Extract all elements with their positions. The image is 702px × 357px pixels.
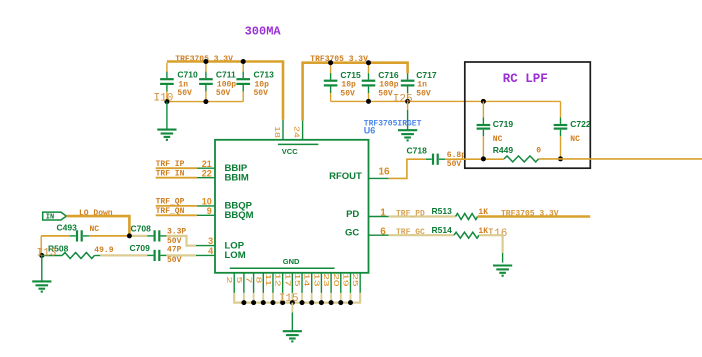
wire bus to ground xyxy=(291,303,293,313)
svg-text:50V: 50V xyxy=(447,160,462,169)
junction dots R449 row xyxy=(481,156,486,161)
ground bus under U6 xyxy=(234,293,360,303)
pin 1 stub (PD) xyxy=(369,216,389,218)
svg-text:GC: GC xyxy=(345,228,359,239)
svg-text:300MA: 300MA xyxy=(245,25,282,39)
capacitor C719 leads xyxy=(482,101,484,117)
pin 3 stub (LOP) xyxy=(196,245,215,247)
capacitor C713 leads xyxy=(242,62,244,73)
svg-text:C711: C711 xyxy=(216,70,236,80)
capacitor C711 leads xyxy=(205,62,207,73)
wire TRF_GC to R514 (highlighted) xyxy=(389,234,454,236)
capacitor C709 xyxy=(147,254,153,256)
svg-text:1n: 1n xyxy=(178,80,188,89)
svg-text:NC: NC xyxy=(493,135,503,144)
capacitor C716 leads xyxy=(368,63,370,73)
wire power rail right (3.3V) down to pin 24 xyxy=(303,63,408,121)
svg-text:C713: C713 xyxy=(254,70,275,80)
GND pins of U6 (2,5,7,8,11,12,17,15,14,13,23,20,19,25) xyxy=(233,273,235,293)
svg-text:10p: 10p xyxy=(255,80,270,89)
ground (right cap group) xyxy=(407,101,409,110)
svg-text:13: 13 xyxy=(312,273,320,287)
capacitor C493 xyxy=(70,235,76,237)
svg-text:50V: 50V xyxy=(216,89,231,98)
svg-text:14: 14 xyxy=(303,273,311,287)
svg-text:50V: 50V xyxy=(416,89,431,98)
svg-text:1: 1 xyxy=(380,208,386,219)
resistor R449 xyxy=(504,156,538,162)
capacitor C708 xyxy=(147,235,153,237)
wire C709 to pin 4 (highlighted) xyxy=(166,254,196,256)
svg-text:50V: 50V xyxy=(254,89,269,98)
capacitor C717 xyxy=(407,73,409,79)
svg-text:R449: R449 xyxy=(493,145,514,155)
wire C493 row left segment xyxy=(41,235,69,237)
svg-text:23: 23 xyxy=(322,273,330,287)
capacitor C722 leads xyxy=(560,101,562,117)
wire net TRF IN to pin 22 xyxy=(156,177,197,179)
resistor R508 xyxy=(62,253,94,259)
capacitor C711 xyxy=(205,72,207,78)
svg-text:3: 3 xyxy=(208,236,213,246)
VCC bar xyxy=(278,143,318,145)
wire TRF_PD to R513 (highlighted) xyxy=(389,215,456,217)
svg-text:GND: GND xyxy=(283,257,300,266)
svg-text:20: 20 xyxy=(332,273,340,287)
capacitor C710 leads xyxy=(166,63,168,72)
svg-text:50V: 50V xyxy=(378,89,393,98)
wire power rail left (3.3V) down to pin 18 xyxy=(167,62,283,120)
ground (left cap group) xyxy=(166,102,168,130)
svg-text:C710: C710 xyxy=(177,70,198,80)
svg-text:11: 11 xyxy=(264,274,272,287)
junction dot R508 node xyxy=(39,253,44,258)
resistor R513 xyxy=(456,214,478,220)
svg-text:18: 18 xyxy=(273,126,281,138)
svg-text:TRF_PD: TRF_PD xyxy=(396,210,425,219)
wire to ground (R514) xyxy=(502,253,504,263)
svg-text:100p: 100p xyxy=(379,81,398,90)
capacitor C718 xyxy=(426,158,432,160)
wire down to R508 node xyxy=(40,236,42,256)
GND bar xyxy=(230,267,335,269)
wire C718 to R449 row xyxy=(445,158,504,160)
ground (R514) xyxy=(493,266,512,276)
svg-text:C716: C716 xyxy=(378,70,399,80)
svg-text:49.9: 49.9 xyxy=(94,246,113,255)
pin 18 stub (VCC) xyxy=(282,120,284,140)
svg-text:C493: C493 xyxy=(57,223,78,233)
pin 9 stub (BBQM) xyxy=(197,214,215,216)
svg-text:19: 19 xyxy=(341,273,349,287)
svg-text:15: 15 xyxy=(293,273,301,287)
ground (R508) xyxy=(41,256,43,282)
svg-text:25: 25 xyxy=(351,273,359,287)
junction dots left bottom rail xyxy=(164,99,169,104)
svg-text:6: 6 xyxy=(380,226,386,237)
svg-text:17: 17 xyxy=(283,273,291,286)
pin 6 stub (GC) xyxy=(369,234,389,236)
svg-text:100p: 100p xyxy=(217,80,236,89)
svg-text:50V: 50V xyxy=(340,89,355,98)
svg-text:50V: 50V xyxy=(177,89,192,98)
wire junction to C708 (highlighted) xyxy=(129,235,147,237)
wire R513 to 3.3V rail xyxy=(478,215,591,218)
pin 16 stub (RFOUT) xyxy=(369,177,389,179)
capacitor C719 xyxy=(482,118,484,124)
svg-text:I25: I25 xyxy=(393,94,413,106)
resistor R514 xyxy=(454,232,479,238)
port IN xyxy=(43,212,67,220)
svg-text:10p: 10p xyxy=(341,81,356,90)
svg-text:RFOUT: RFOUT xyxy=(329,171,362,182)
wire RFOUT to C718 xyxy=(389,159,426,178)
capacitor C713 xyxy=(242,72,244,78)
svg-text:C719: C719 xyxy=(493,119,514,129)
junction dots right bottom wire xyxy=(366,99,371,104)
svg-text:C717: C717 xyxy=(416,70,437,80)
IC U6 TRF3705 body xyxy=(215,140,369,273)
RC LPF block outline xyxy=(465,62,591,168)
svg-text:TRF IN: TRF IN xyxy=(156,169,185,178)
junction dots right rail xyxy=(328,60,333,65)
svg-text:8: 8 xyxy=(254,277,262,284)
svg-text:R514: R514 xyxy=(432,225,453,235)
junction dot LO node xyxy=(127,233,132,238)
capacitor C710 xyxy=(166,72,168,78)
svg-text:47P: 47P xyxy=(167,245,182,254)
svg-text:IN: IN xyxy=(46,214,54,222)
svg-text:I13: I13 xyxy=(37,248,57,260)
svg-text:TRF_GC: TRF_GC xyxy=(396,228,425,237)
svg-text:I10: I10 xyxy=(154,92,174,104)
pin stubs to ground bus xyxy=(243,293,245,303)
svg-text:TRF IP: TRF IP xyxy=(156,160,185,169)
junction dots on ground bus xyxy=(241,300,246,305)
svg-text:TRF_QN: TRF_QN xyxy=(156,207,185,216)
svg-text:12: 12 xyxy=(273,273,281,286)
svg-text:VCC: VCC xyxy=(282,147,298,156)
svg-text:R513: R513 xyxy=(432,206,453,216)
svg-text:NC: NC xyxy=(570,135,580,144)
svg-text:C708: C708 xyxy=(131,224,152,234)
svg-text:16: 16 xyxy=(379,167,391,178)
wire R514 to ground (highlighted) xyxy=(479,235,503,253)
svg-text:C715: C715 xyxy=(340,70,361,80)
svg-text:24: 24 xyxy=(293,126,301,138)
svg-text:TRF3705 3.3V: TRF3705 3.3V xyxy=(501,210,559,219)
wire net TRF_QP to pin 10 xyxy=(156,205,197,207)
wire net TRF_QN to pin 9 xyxy=(156,214,197,216)
svg-text:4: 4 xyxy=(208,246,213,256)
svg-text:5: 5 xyxy=(235,277,243,284)
pin 10 stub (BBQP) xyxy=(197,205,215,207)
svg-text:LOM: LOM xyxy=(225,250,246,261)
capacitor C716 xyxy=(368,73,370,79)
wire bottom rail of right cap group into RC LPF box xyxy=(331,100,561,102)
junction dots left rail xyxy=(203,59,208,64)
svg-text:9: 9 xyxy=(207,206,212,216)
capacitor C722 xyxy=(560,118,562,124)
svg-text:NC: NC xyxy=(90,225,100,234)
svg-text:BBQM: BBQM xyxy=(225,210,254,221)
wire bottom rail of left cap group xyxy=(167,101,243,103)
svg-text:0: 0 xyxy=(536,146,541,155)
ground (U6 ground bus) xyxy=(283,331,302,341)
svg-text:C718: C718 xyxy=(407,146,428,156)
svg-text:C709: C709 xyxy=(130,243,151,253)
wire net TRF IP to pin 21 xyxy=(156,167,197,169)
wire IN to junction (LO_Down) xyxy=(66,216,129,236)
resistor R508 left lead xyxy=(42,255,62,257)
wire C708 to pin 3 (highlighted) xyxy=(166,236,196,246)
pin 21 stub (BBIP) xyxy=(197,167,215,169)
svg-text:I16: I16 xyxy=(488,228,508,240)
svg-text:RC LPF: RC LPF xyxy=(503,72,548,86)
pin 4 stub (LOM) xyxy=(196,254,215,256)
wire R449 output to right edge xyxy=(539,158,702,160)
svg-text:22: 22 xyxy=(202,168,212,178)
pin 22 stub (BBIM) xyxy=(197,177,215,179)
pin 24 stub (VCC) xyxy=(302,121,304,140)
svg-text:U6: U6 xyxy=(364,126,376,136)
capacitor C717 leads xyxy=(406,61,409,73)
svg-text:C722: C722 xyxy=(570,119,591,129)
capacitor C715 xyxy=(330,73,332,79)
svg-text:PD: PD xyxy=(346,209,359,220)
svg-text:7: 7 xyxy=(244,277,252,284)
svg-text:50V: 50V xyxy=(167,256,182,265)
svg-text:1n: 1n xyxy=(417,81,427,90)
capacitor C715 leads xyxy=(330,63,332,73)
svg-text:BBIM: BBIM xyxy=(225,172,249,183)
svg-text:I15: I15 xyxy=(279,293,299,305)
wire R508 to C709 (highlighted) xyxy=(100,254,147,256)
svg-text:2: 2 xyxy=(225,277,233,284)
resistor R508 right lead xyxy=(94,255,100,257)
svg-text:TRF_QP: TRF_QP xyxy=(156,198,185,207)
wire C493 to junction xyxy=(89,235,129,237)
svg-text:21: 21 xyxy=(202,159,212,169)
